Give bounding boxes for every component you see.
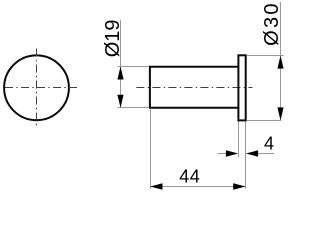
dim Ø19 arrow up [117, 67, 123, 80]
dim 4 arrow right-pointing [226, 150, 238, 156]
dim 44 arrow left end [150, 183, 162, 190]
dim Ø30 arrow up [277, 56, 283, 69]
svg-text:44: 44 [179, 167, 200, 187]
dim Ø30 extension line top [247, 55, 284, 57]
dim Ø30 dimension line [280, 2, 282, 120]
dim 44 dimension line [150, 186, 245, 188]
svg-text:4: 4 [264, 133, 274, 153]
dim 4 extension line left [238, 122, 240, 158]
dim Ø19 extension line top [118, 66, 150, 68]
svg-text:Ø19: Ø19 [102, 19, 124, 57]
dim 4 arrow left-pointing [246, 150, 258, 156]
dim Ø30 arrow down [277, 107, 283, 120]
circle horizontal centerline [5, 87, 78, 89]
dim 4 left tail [218, 153, 228, 155]
svg-text:Ø30: Ø30 [261, 1, 283, 46]
dim Ø30 extension line bottom [247, 120, 282, 122]
dim 44 arrow right end [233, 183, 245, 190]
dim 4 extension line right (shared with 44) [245, 122, 247, 189]
dim Ø19 extension line bottom [118, 107, 150, 109]
dim 4 right tail [258, 153, 274, 155]
side view centerline [136, 87, 252, 89]
dim Ø19 arrow down [117, 95, 123, 108]
front view circle (flange Ø30) [4, 55, 69, 120]
dim Ø19 dimension line [120, 20, 122, 107]
cylinder body outline [150, 67, 238, 108]
flange outline [238, 55, 245, 120]
dim 44 extension line left [150, 110, 152, 189]
circle vertical centerline [36, 49, 38, 128]
